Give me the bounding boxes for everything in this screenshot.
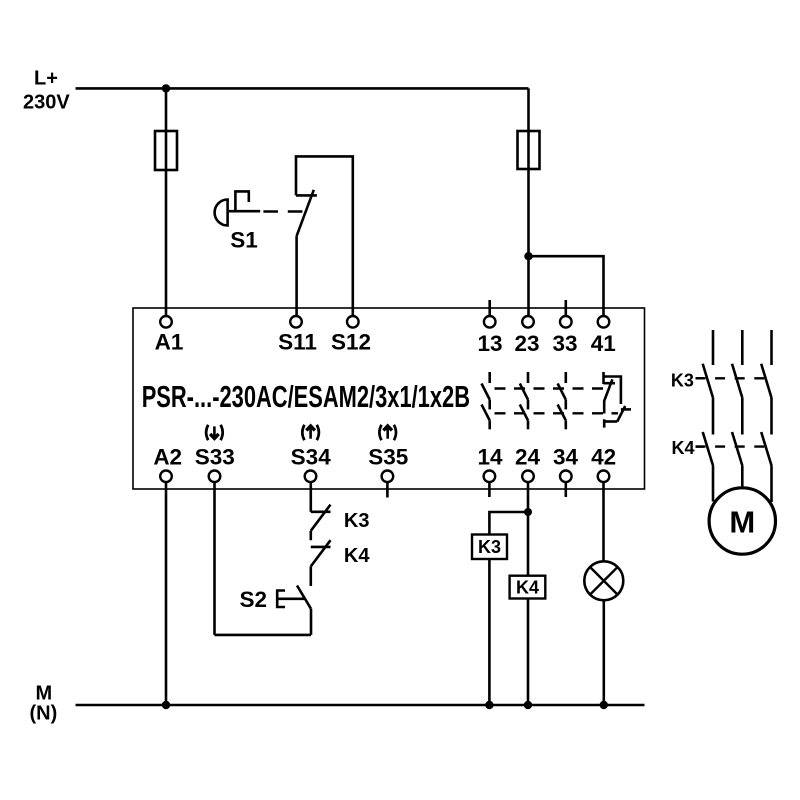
svg-text:K3: K3 (344, 510, 370, 532)
terminal A1 (160, 316, 172, 328)
pushbutton S1 mushroom head (215, 200, 228, 226)
wire: K4 coil to neutral rail (527, 599, 530, 706)
terminal A2 (160, 471, 172, 483)
node: junction below 24 (524, 508, 532, 516)
svg-text:S1: S1 (230, 228, 258, 253)
auxiliary contact 41-42 linkage hook (604, 377, 621, 405)
safety contact 33-34 mid lead (564, 400, 567, 410)
wire: K3-K4 pole 3 lead (770, 398, 773, 435)
svg-text:K4: K4 (672, 438, 695, 458)
contactor K4 label tick (696, 445, 705, 447)
safety contact 33-34 blade 1 (558, 384, 566, 400)
fuse F1 (155, 131, 177, 170)
wire: branch from 23 wire to terminal 41 (529, 256, 604, 316)
wire: pole 2 to motor (741, 466, 744, 489)
svg-text:41: 41 (591, 331, 616, 356)
wire: mechanical link dashed row 2 (495, 412, 619, 414)
svg-text:A1: A1 (155, 330, 184, 355)
svg-text:K3: K3 (478, 537, 501, 557)
pushbutton S2 blade (297, 586, 311, 609)
wire: mechanical link dashed row 1 (495, 387, 605, 389)
node: junction A2 on neutral rail (162, 701, 170, 709)
wire: 42 down to lamp (602, 482, 605, 561)
terminal 41 (598, 316, 610, 328)
wire: contact 42 lower lead (604, 420, 617, 423)
wire: S2 to reset loop (310, 609, 313, 635)
terminal S12 (347, 316, 359, 328)
terminal 14 (484, 471, 496, 483)
wire: phase L1 stub (712, 330, 715, 365)
contact K4 NC blade (311, 540, 331, 566)
wire: between K3 and K4 contacts (309, 531, 312, 540)
terminal 24 (522, 471, 534, 483)
indicator lamp H1 cross (590, 567, 618, 595)
terminal 34 (560, 471, 572, 483)
motor M circle (709, 488, 775, 554)
svg-text:K4: K4 (344, 545, 370, 567)
contactor K3 blade pole 2 (732, 364, 742, 398)
svg-text:S33: S33 (195, 444, 235, 469)
wire: S1 dashed actuator link (263, 210, 302, 213)
wire: phase L2 stub (741, 330, 744, 365)
node: junction on rail above A1 (162, 84, 170, 92)
contactor K3 blade pole 1 (703, 364, 713, 398)
wire: lamp to neutral rail (602, 600, 605, 705)
contact K4 NC tick (311, 546, 331, 549)
safety contact 33-34 lower lead (564, 420, 567, 429)
svg-text:(N): (N) (30, 703, 58, 725)
wire: K3 coil to neutral rail (488, 559, 491, 705)
safety contact 23-24 mid lead (527, 400, 530, 410)
terminal S35 (382, 471, 394, 483)
safety contact 13-14 upper lead (488, 372, 491, 383)
safety contact 13-14 mid lead (488, 400, 491, 410)
wire: rail corner down to terminal 23 (527, 88, 530, 316)
svg-text:33: 33 (552, 331, 577, 356)
terminal S33 (209, 471, 221, 483)
wire: stub above terminal 33 (564, 300, 567, 316)
svg-text:A2: A2 (153, 444, 182, 469)
svg-text:34: 34 (553, 444, 579, 469)
node: junction on 23 wire (524, 252, 532, 260)
relay box PSR outline (133, 308, 645, 489)
wire: S11-S12 loop top bar (296, 156, 353, 316)
pushbutton S1 latch symbol (235, 191, 248, 210)
safety contact 33-34 upper lead (564, 372, 567, 383)
wire: 24 down to branch junction (527, 482, 530, 512)
terminal 13 (484, 316, 496, 328)
safety contact 33-34 blade 2 (558, 405, 566, 421)
wire: stub above terminal 13 (488, 300, 491, 316)
wire: K3 dashed link (696, 377, 767, 379)
svg-text:L+: L+ (34, 68, 58, 90)
label arrow up S34 (302, 425, 319, 440)
contact K3 NC blade (311, 505, 331, 531)
svg-text:K3: K3 (671, 370, 694, 390)
auxiliary contact 41-42 upper lead (602, 372, 605, 384)
wire: A2 to neutral rail (165, 482, 168, 705)
contact S1 NC tick (296, 194, 317, 197)
node: junction K3 coil on neutral rail (485, 701, 493, 709)
wire: stub to terminal 42 (603, 419, 606, 427)
auxiliary contact 42 NC tick (621, 408, 631, 411)
svg-text:13: 13 (477, 331, 502, 356)
safety contact 13-14 blade 2 (482, 405, 490, 421)
auxiliary contact 41 NC blade (604, 379, 612, 413)
fuse F2 (518, 131, 540, 169)
svg-text:S34: S34 (291, 444, 332, 469)
wire: pole 1 to motor (712, 466, 715, 502)
terminal 23 (522, 316, 534, 328)
svg-text:S11: S11 (278, 330, 317, 355)
relay coil K3 box (472, 535, 507, 560)
wire: pole 3 to motor (770, 466, 773, 503)
terminal S11 (290, 316, 302, 328)
safety contact 13-14 lower lead (488, 420, 491, 429)
safety contact 23-24 upper lead (527, 372, 530, 383)
svg-text:S12: S12 (331, 330, 371, 355)
terminal S34 (305, 471, 317, 483)
contactor K3 blade pole 3 (761, 364, 771, 398)
safety contact 13-14 blade 1 (482, 384, 490, 400)
label arrow down S33 (206, 425, 223, 440)
pushbutton S2 actuator (277, 591, 304, 608)
wire: K3-K4 pole 2 lead (741, 398, 744, 435)
wire: S33 down to reset loop (213, 482, 216, 635)
wire: stub below terminal S35 (386, 482, 389, 498)
contact K3 NC tick (311, 510, 331, 513)
contactor K4 blade pole 3 (761, 432, 771, 466)
pushbutton S1 actuator stem (229, 210, 260, 213)
svg-text:14: 14 (477, 444, 503, 469)
safety contact 23-24 blade 1 (520, 384, 528, 400)
wire: branch to K3 coil (489, 512, 528, 535)
wire: K3-K4 pole 1 lead (712, 398, 715, 435)
indicator lamp H1 circle (584, 561, 623, 600)
wire: phase L3 stub (770, 330, 773, 365)
safety contact 23-24 blade 2 (520, 405, 528, 421)
node: junction K4 coil on neutral rail (524, 701, 532, 709)
wire: rail to A1 terminal (165, 88, 168, 316)
svg-text:S2: S2 (240, 587, 268, 612)
wire: S34 down to K3 contact (309, 482, 312, 512)
wire: M neutral rail (76, 704, 645, 707)
svg-text:230V: 230V (23, 92, 70, 114)
terminal 42 (598, 471, 610, 483)
wire: reset loop bottom (215, 634, 312, 637)
wire: 24 to K4 coil (527, 512, 530, 576)
wire: K4 dashed link (696, 445, 767, 447)
wire: K4 contact to S2 (309, 566, 312, 586)
node: junction lamp on neutral rail (600, 701, 608, 709)
wire: stub below terminal 34 (564, 482, 567, 497)
terminal 33 (560, 316, 572, 328)
wire: L+ supply rail (76, 87, 529, 90)
relay coil K4 box (510, 576, 546, 599)
contactor K3 label tick (696, 377, 705, 379)
wire: stub below terminal 14 (488, 482, 491, 497)
label arrow up S35 (379, 425, 396, 440)
svg-text:K4: K4 (516, 578, 539, 598)
svg-text:M: M (729, 505, 755, 540)
contactor K4 blade pole 2 (732, 432, 742, 466)
svg-text:24: 24 (515, 444, 541, 469)
auxiliary contact 42 NC blade (617, 406, 625, 422)
wire: S1 to terminal S11 (295, 236, 298, 316)
svg-text:M: M (36, 683, 53, 705)
auxiliary contact 41 NC tick (604, 382, 616, 385)
svg-text:PSR-...-230AC/ESAM2/3x1/1x2B: PSR-...-230AC/ESAM2/3x1/1x2B (142, 379, 470, 414)
safety contact 23-24 lower lead (527, 420, 530, 429)
contact S1 NC blade (297, 190, 314, 236)
contactor K4 blade pole 1 (703, 432, 713, 466)
svg-text:42: 42 (591, 444, 616, 469)
svg-text:S35: S35 (368, 444, 408, 469)
svg-text:23: 23 (514, 331, 539, 356)
